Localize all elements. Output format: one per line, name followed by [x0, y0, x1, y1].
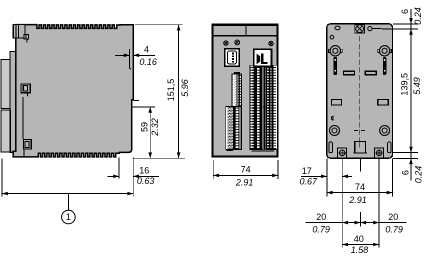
svg-text:59: 59: [139, 122, 149, 132]
svg-text:0.79: 0.79: [312, 224, 330, 234]
svg-text:0.24: 0.24: [413, 7, 423, 25]
svg-text:5.49: 5.49: [412, 77, 422, 95]
svg-text:0.79: 0.79: [385, 224, 403, 234]
svg-text:2.91: 2.91: [348, 195, 367, 205]
svg-text:0.16: 0.16: [139, 57, 157, 67]
svg-text:5.96: 5.96: [180, 79, 190, 97]
svg-text:74: 74: [241, 165, 251, 175]
svg-text:1.58: 1.58: [351, 245, 369, 255]
svg-text:16: 16: [139, 165, 149, 175]
svg-text:74: 74: [355, 182, 365, 192]
svg-text:20: 20: [316, 212, 326, 222]
svg-text:17: 17: [302, 166, 312, 176]
svg-text:151,5: 151,5: [166, 79, 176, 102]
svg-text:1: 1: [66, 212, 71, 222]
svg-text:0.24: 0.24: [413, 166, 423, 184]
svg-text:0.67: 0.67: [300, 176, 319, 186]
svg-text:40: 40: [354, 234, 364, 244]
svg-text:6: 6: [401, 170, 411, 175]
svg-text:4: 4: [144, 45, 149, 55]
svg-text:20: 20: [388, 212, 398, 222]
svg-text:139,5: 139,5: [400, 73, 410, 96]
svg-text:2.32: 2.32: [150, 118, 160, 137]
svg-text:0.63: 0.63: [137, 176, 155, 186]
svg-text:2.91: 2.91: [235, 178, 254, 188]
svg-text:6: 6: [400, 9, 410, 14]
